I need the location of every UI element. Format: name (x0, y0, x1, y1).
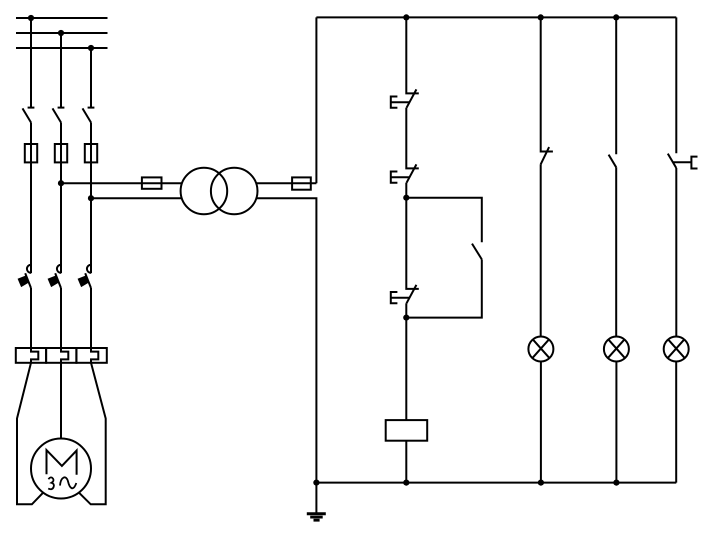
fuse F1 (25, 144, 37, 162)
pushbutton S4 NO lamp3 (668, 154, 698, 169)
wire control top rail (316, 16, 676, 18)
wire lamp2 contact to lamp (615, 167, 617, 336)
node control tap primary bottom (88, 195, 94, 201)
fuse F6 (292, 177, 311, 189)
wire pole1 fuse to breaker (30, 162, 32, 273)
breaker contact QM1 pole 3 (79, 265, 91, 288)
motor label 3 (48, 477, 54, 489)
contact KM1 aux NO lamp2 (609, 155, 617, 168)
wire pole3 switch to fuse (90, 123, 92, 145)
bus line L2 (16, 32, 108, 34)
wire lamp1 contact to lamp (540, 164, 542, 336)
wire seal branch bottom run (406, 259, 482, 317)
contact KM1 aux NC lamp1 (541, 147, 549, 164)
wire pole2 breaker to overload (60, 288, 62, 348)
node seal branch top (403, 195, 409, 201)
breaker contact QM1 pole 1 (19, 265, 31, 288)
switch Q1 pole 3 (83, 108, 95, 123)
bus line L3 (16, 47, 108, 49)
wire lamp2 branch top (615, 17, 617, 154)
wire main branch top (406, 17, 419, 93)
wire lamp1 to rail (540, 361, 542, 482)
wire lamp3 to rail (675, 361, 677, 482)
wire pole3 breaker to overload (90, 288, 92, 348)
wire coil to rail (405, 441, 407, 483)
wire motor lead W (79, 363, 106, 505)
wire S3 to coil (405, 303, 407, 420)
ground (307, 483, 326, 521)
overload relay F4 box 1 (16, 348, 46, 363)
motor M1 (31, 439, 91, 499)
wire motor lead U (17, 363, 43, 505)
wire motor lead V (60, 363, 62, 439)
wire control bottom rail (316, 482, 676, 484)
wire pole2 switch to fuse (60, 123, 62, 145)
node bottom rail lamp1 (538, 480, 544, 486)
lamp H1 (528, 337, 553, 362)
node control tap primary top (58, 180, 64, 186)
transformer T1 primary (181, 168, 228, 215)
wire control primary top (61, 182, 182, 184)
contact KM1 aux NO (472, 244, 482, 260)
pushbutton S2 NC (391, 164, 417, 182)
lamp H2 (604, 337, 629, 362)
wire lamp1 branch top (541, 17, 553, 151)
switch Q1 pole 2 (53, 108, 65, 123)
overload relay F4 box 3 (76, 348, 106, 363)
switch Q1 pole 1 (23, 108, 35, 123)
breaker contact QM1 pole 2 (49, 265, 61, 288)
pushbutton S3 NC (391, 285, 417, 303)
wire pole2 fuse to breaker (60, 162, 62, 273)
wire L2 drop (60, 33, 62, 108)
wire lamp2 to rail (615, 361, 617, 482)
wire secondary bottom (256, 198, 316, 482)
fuse F5 (142, 177, 162, 188)
node L2 tap (58, 30, 64, 36)
wire L1 drop (30, 18, 32, 108)
node top rail branch lamp2 (613, 14, 619, 20)
wire lamp3 branch top (675, 17, 677, 153)
fuse F3 (85, 144, 97, 162)
transformer T1 secondary (211, 168, 258, 215)
node top rail branch coil (403, 14, 409, 20)
coil KM1 (386, 420, 428, 441)
wire lamp3 contact to lamp (675, 168, 677, 337)
overload relay F4 box 2 (46, 348, 76, 363)
lamp H3 (664, 337, 689, 362)
node bottom rail coil (403, 480, 409, 486)
node bottom rail ground (313, 480, 319, 486)
bus line L1 (16, 17, 108, 19)
wire S1 to S2 (406, 108, 419, 169)
pushbutton S1 NC stop (391, 89, 417, 107)
node bottom rail lamp2 (613, 480, 619, 486)
wire L3 drop (90, 48, 92, 108)
node seal branch bottom (403, 315, 409, 321)
fuse F2 (55, 144, 67, 162)
wire pole1 switch to fuse (30, 123, 32, 145)
motor label sine (60, 477, 76, 488)
wire seal branch top run (406, 198, 482, 243)
wire control feed riser (315, 17, 317, 183)
wire secondary top (256, 182, 316, 184)
node L3 tap (88, 45, 94, 51)
wire pole3 fuse to breaker (90, 162, 92, 273)
wire control primary bottom (91, 197, 182, 199)
wire S2 to S3 (406, 183, 419, 289)
wire pole1 breaker to overload (30, 288, 32, 348)
node top rail branch lamp1 (538, 14, 544, 20)
node L1 tap (28, 15, 34, 21)
